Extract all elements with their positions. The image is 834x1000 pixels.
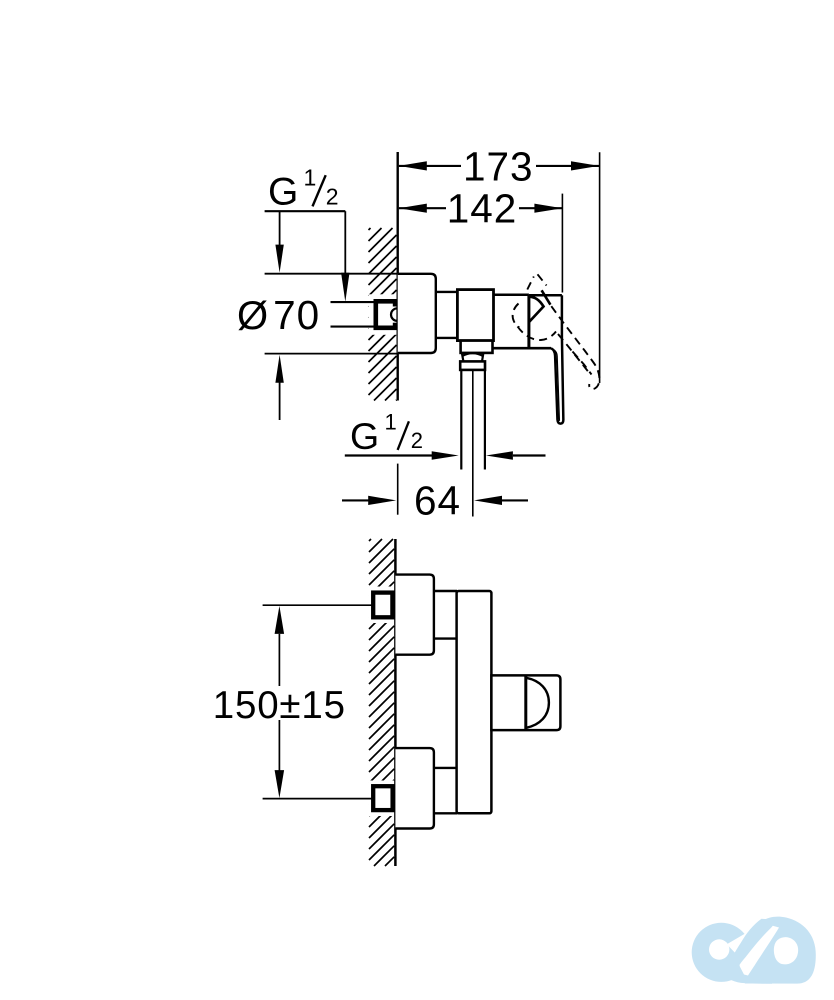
svg-text:150±15: 150±15	[213, 684, 346, 727]
svg-text:2: 2	[411, 428, 423, 453]
svg-text:64: 64	[414, 478, 461, 524]
svg-text:1: 1	[385, 410, 397, 435]
svg-text:173: 173	[463, 144, 534, 190]
svg-text:142: 142	[447, 186, 518, 232]
svg-text:2: 2	[326, 184, 339, 210]
svg-text:G: G	[350, 415, 379, 457]
svg-text:70: 70	[273, 292, 320, 338]
svg-text:1: 1	[304, 165, 317, 191]
svg-text:G: G	[268, 170, 298, 213]
svg-text:Ø: Ø	[237, 294, 268, 338]
